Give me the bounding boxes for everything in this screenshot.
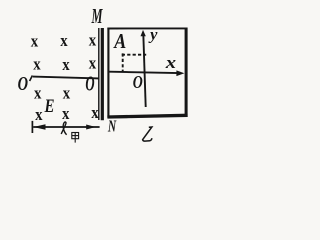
svg-text:x: x — [62, 55, 70, 74]
label yi (Chinese) below right box — [143, 127, 152, 141]
box frame left edge — [107, 28, 109, 118]
svg-text:M: M — [91, 4, 103, 28]
svg-text:x: x — [165, 53, 177, 72]
wire O' to O horizontal line — [33, 77, 99, 79]
svg-text:O: O — [85, 72, 94, 96]
svg-text:O: O — [133, 72, 143, 92]
y axis arrowhead — [141, 30, 146, 36]
x axis arrowhead — [176, 70, 184, 76]
box frame right edge — [185, 28, 188, 117]
dashed vertical from A to x axis — [122, 53, 124, 71]
y axis line — [143, 34, 145, 108]
dimension right arrowhead — [86, 125, 96, 130]
svg-text:A: A — [112, 29, 126, 53]
dimension left tick — [31, 121, 33, 133]
svg-text:x: x — [31, 31, 39, 50]
svg-text:x: x — [60, 31, 68, 50]
dimension left arrowhead — [33, 124, 45, 129]
box frame top edge — [107, 27, 187, 29]
dashed horizontal from A to y axis — [122, 54, 146, 56]
svg-text:y: y — [148, 27, 158, 44]
svg-text:x: x — [89, 31, 97, 50]
svg-text:O: O — [18, 73, 29, 95]
box frame bottom edge — [107, 115, 187, 117]
svg-text:E: E — [44, 96, 55, 117]
svg-text:x: x — [62, 104, 70, 123]
svg-text:x: x — [63, 83, 71, 102]
dimension line — [33, 126, 99, 128]
prime mark of O prime — [30, 76, 33, 82]
boundary MN thin line — [98, 28, 100, 120]
svg-text:x: x — [34, 84, 42, 103]
x axis line — [109, 72, 178, 73]
svg-text:x: x — [35, 105, 43, 124]
svg-text:x: x — [91, 103, 99, 122]
svg-text:x: x — [89, 53, 97, 72]
boundary MN thick line — [101, 28, 104, 120]
label script ell — [61, 122, 66, 135]
label jia (Chinese) below dimension — [72, 133, 79, 143]
svg-text:x: x — [33, 55, 41, 74]
svg-text:N: N — [107, 117, 117, 136]
